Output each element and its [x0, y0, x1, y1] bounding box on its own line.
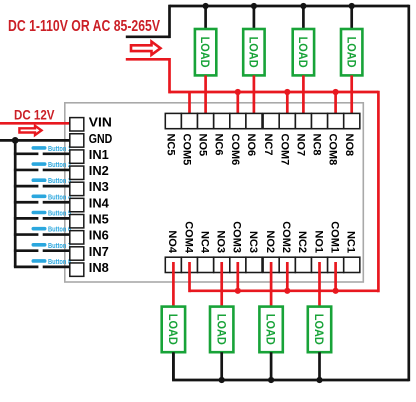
terminal NO5 [197, 113, 214, 156]
svg-text:NO3: NO3 [215, 230, 227, 253]
junction top bus COM7 [284, 89, 290, 95]
svg-text:LOAD: LOAD [247, 37, 259, 68]
svg-text:LOAD: LOAD [344, 37, 356, 68]
svg-text:NC2: NC2 [296, 231, 308, 253]
load L5 (top) [195, 29, 216, 75]
terminal NO1 [312, 230, 328, 272]
wire NO4 to load L4 [172, 262, 175, 308]
load L1 (bottom) [308, 307, 331, 353]
wire load L6 to black bus [253, 6, 256, 30]
load L6 (top) [243, 29, 264, 75]
pushbutton Button 6 [32, 227, 72, 234]
wire DC12V positive to VIN [0, 122, 82, 125]
pin IN6 [70, 228, 109, 244]
svg-text:NC4: NC4 [198, 231, 210, 254]
wire load L4 to black bus [172, 352, 175, 380]
pushbutton Button 5 [32, 211, 72, 218]
svg-text:NC3: NC3 [247, 231, 259, 253]
pin IN7 [70, 244, 109, 260]
terminal NC3 [246, 231, 262, 273]
svg-text:IN5: IN5 [89, 212, 109, 227]
svg-text:IN3: IN3 [89, 179, 109, 194]
terminal NC2 [295, 231, 311, 273]
wire load L1 to black bus [318, 352, 321, 380]
load L4 (bottom) [162, 307, 185, 353]
svg-text:LOAD: LOAD [198, 37, 210, 68]
wire button 3 right lead to IN3 [43, 185, 81, 188]
terminal NO8 [343, 113, 360, 156]
terminal NC4 [198, 231, 214, 273]
wire left ground bus [14, 140, 17, 267]
wire COM7 tap [286, 92, 289, 125]
svg-text:NO5: NO5 [197, 134, 209, 157]
load L8 (top) [341, 29, 362, 75]
wire button 7 right lead to IN7 [43, 249, 81, 252]
svg-text:COM5: COM5 [181, 134, 193, 166]
wire right black bus [407, 5, 410, 382]
pushbutton Button 2 [32, 162, 72, 169]
svg-text:GND: GND [89, 131, 113, 146]
wire bottom black bus [173, 352, 408, 380]
wire button 5 right lead to IN5 [43, 217, 81, 220]
pin VIN [70, 115, 112, 131]
junction bottom red bus COM3 [235, 288, 241, 294]
svg-text:NO6: NO6 [245, 134, 257, 157]
junction top bus COM6 [235, 89, 241, 95]
svg-text:IN6: IN6 [89, 228, 109, 243]
svg-text:NO8: NO8 [343, 134, 355, 157]
svg-text:NC1: NC1 [345, 231, 357, 253]
pin IN8 [70, 260, 109, 276]
terminal COM1 [328, 221, 344, 272]
wire button 8 right lead to IN8 [43, 266, 81, 269]
svg-text:IN1: IN1 [89, 147, 109, 162]
pushbutton Button 3 [32, 178, 72, 185]
svg-text:Button 7: Button 7 [48, 243, 71, 250]
load L2 (bottom) [259, 307, 282, 353]
svg-text:COM4: COM4 [182, 221, 194, 254]
pin IN1 [70, 147, 109, 163]
wire button 2 right lead to IN2 [43, 169, 81, 172]
wire COM4 tap [188, 262, 191, 292]
junction top bus COM8 [333, 89, 339, 95]
wire button 2 left lead [14, 169, 39, 172]
svg-text:Button 1: Button 1 [48, 146, 71, 153]
pin IN2 [70, 163, 109, 179]
pin IN5 [70, 212, 109, 228]
terminal COM7 [278, 113, 295, 165]
wire COM3 tap [236, 262, 239, 291]
wire button 3 left lead [14, 185, 39, 188]
terminal NO4 [165, 230, 181, 272]
terminal COM2 [279, 221, 295, 272]
wire NO3 to load L3 [220, 262, 223, 308]
svg-text:LOAD: LOAD [264, 314, 276, 345]
pushbutton Button 7 [32, 243, 72, 250]
svg-text:Button 6: Button 6 [48, 227, 71, 234]
wire COM5 tap [188, 92, 191, 125]
svg-text:LOAD: LOAD [166, 314, 178, 345]
wire NO2 to load L2 [270, 262, 273, 308]
wire black riser to top bus [168, 5, 171, 38]
wire load L7 to NO7 [302, 75, 305, 124]
terminal NO7 [294, 113, 311, 156]
svg-text:IN8: IN8 [89, 260, 109, 275]
pushbutton Button 4 [32, 194, 72, 201]
pin GND [70, 131, 113, 147]
svg-text:NC6: NC6 [213, 134, 225, 156]
terminal NC1 [344, 231, 360, 273]
terminal COM6 [229, 113, 246, 165]
wire COM8 tap [334, 92, 337, 125]
svg-text:NO1: NO1 [312, 230, 324, 253]
svg-text:NO4: NO4 [166, 230, 178, 254]
junction top bus load L6 [251, 3, 257, 9]
wire load L5 to black bus [204, 6, 207, 30]
module board outline [65, 103, 364, 282]
terminal COM5 [181, 113, 198, 165]
wire top red COM bus [170, 91, 379, 94]
svg-text:Button 8: Button 8 [48, 259, 71, 266]
wire load L8 to NO8 [350, 75, 353, 124]
wire AC source black stub [126, 35, 170, 38]
svg-text:DC 1-110V OR AC 85-265V: DC 1-110V OR AC 85-265V [8, 18, 160, 35]
svg-text:IN2: IN2 [89, 163, 109, 178]
svg-text:DC 12V: DC 12V [14, 107, 55, 123]
svg-text:Button 2: Button 2 [48, 162, 71, 169]
svg-text:Button 3: Button 3 [48, 178, 71, 185]
svg-text:NC7: NC7 [262, 134, 274, 156]
svg-text:LOAD: LOAD [214, 314, 226, 345]
wire COM6 tap [236, 92, 239, 125]
junction top bus load L5 [203, 3, 209, 9]
wire red riser to COM bus [168, 58, 171, 93]
svg-text:NC8: NC8 [311, 134, 323, 156]
wire button 6 left lead [14, 233, 39, 236]
junction bottom bus load L1 [316, 377, 322, 383]
terminal NC5 [164, 113, 181, 155]
wire button 4 right lead to IN4 [43, 201, 81, 204]
wire button 4 left lead [14, 201, 39, 204]
svg-text:COM6: COM6 [229, 134, 241, 166]
svg-text:COM1: COM1 [329, 221, 341, 253]
wire load L3 to black bus [220, 352, 223, 380]
label DC 12V [14, 107, 55, 123]
svg-text:VIN: VIN [89, 115, 112, 130]
terminal NO2 [263, 230, 279, 272]
svg-text:NO7: NO7 [294, 134, 306, 157]
svg-text:COM8: COM8 [327, 134, 339, 166]
pin IN3 [70, 179, 109, 195]
wire load L5 to NO5 [204, 75, 207, 124]
svg-text:NC5: NC5 [164, 134, 176, 156]
pushbutton Button 8 [32, 259, 72, 266]
svg-text:IN4: IN4 [89, 195, 110, 210]
svg-text:COM7: COM7 [278, 134, 290, 166]
terminal COM8 [327, 113, 344, 165]
svg-text:Button 4: Button 4 [48, 194, 71, 201]
wire load L6 to NO6 [253, 75, 256, 124]
svg-text:COM2: COM2 [280, 221, 292, 253]
label AC source voltage [8, 18, 160, 35]
wire load L2 to black bus [270, 352, 273, 380]
junction top bus load L7 [300, 3, 306, 9]
terminal NC6 [213, 113, 230, 155]
wire NO1 to load L1 [318, 262, 321, 308]
terminal NC7 [262, 113, 279, 155]
junction bottom bus load L2 [268, 377, 274, 383]
wire AC source red stub [126, 58, 170, 61]
junction bottom bus load L3 [219, 377, 225, 383]
wire button 8 left lead [14, 266, 39, 269]
svg-text:LOAD: LOAD [312, 314, 324, 345]
svg-text:LOAD: LOAD [296, 37, 308, 68]
wire button 1 right lead to IN1 [43, 152, 81, 155]
wire button 6 right lead to IN6 [43, 233, 81, 236]
wire top black bus [170, 5, 409, 8]
arrow AC source [131, 42, 161, 55]
wire load L8 to black bus [350, 6, 353, 30]
wire button 7 left lead [14, 249, 39, 252]
terminal COM3 [230, 221, 246, 272]
svg-text:IN7: IN7 [89, 244, 109, 259]
load L7 (top) [293, 29, 314, 75]
wire right red bus [377, 91, 380, 293]
wire COM2 tap [286, 262, 289, 291]
wire button 5 left lead [14, 217, 39, 220]
arrow DC 12V [19, 126, 41, 135]
junction ground bus [12, 137, 19, 144]
junction top bus load L8 [349, 3, 355, 9]
wire bottom red COM bus [190, 289, 379, 292]
terminal NC8 [311, 113, 328, 155]
load L3 (bottom) [210, 307, 233, 353]
wire load L7 to black bus [302, 6, 305, 30]
pushbutton Button 1 [32, 146, 72, 153]
pin IN4 [70, 195, 110, 211]
svg-text:COM3: COM3 [231, 221, 243, 253]
junction bottom red bus COM2 [284, 288, 290, 294]
svg-text:Button 5: Button 5 [48, 211, 71, 218]
terminal NO6 [245, 113, 262, 156]
terminal NO3 [214, 230, 230, 272]
junction bottom red bus COM1 [333, 288, 339, 294]
svg-text:NO2: NO2 [264, 230, 276, 253]
wire button 1 left lead [14, 152, 39, 155]
terminal COM4 [181, 221, 197, 272]
wire DC12V ground to GND [0, 139, 82, 142]
wire COM1 tap [334, 262, 337, 291]
